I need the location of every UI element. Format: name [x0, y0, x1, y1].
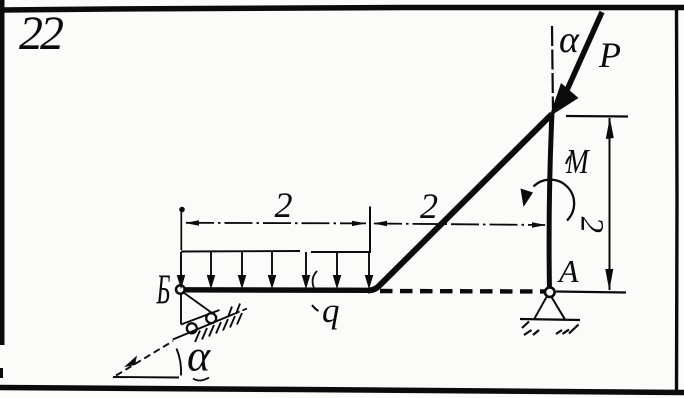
- dimension line 1 (left span): [186, 222, 366, 225]
- diagonal member bend to apex: [368, 114, 552, 291]
- dim1 left arrow: [185, 220, 199, 225]
- pin support A ground line: [520, 319, 580, 320]
- middle dimension tick: [369, 207, 371, 254]
- q tick before: [312, 305, 319, 311]
- pin support A hatching: [522, 322, 579, 336]
- q curl above beam: [313, 271, 317, 288]
- frame right border: [675, 8, 679, 392]
- angle alpha arc: [177, 349, 182, 376]
- svg-text:M: M: [565, 142, 590, 181]
- svg-text:2: 2: [275, 185, 293, 225]
- vertical reference line above apex: [552, 26, 553, 112]
- beam B to bend: [180, 287, 370, 293]
- dimension tick above B: [180, 212, 182, 250]
- vertical column apex to A: [549, 113, 552, 292]
- dim2 left arrow: [373, 221, 387, 226]
- svg-text:α: α: [187, 332, 211, 381]
- arrow on dashed line: [124, 356, 137, 368]
- incline hatching: [195, 304, 242, 343]
- incline surface dashed extension: [235, 309, 247, 314]
- angle alpha dashed reference line: [116, 341, 173, 376]
- right dimension bottom tick: [556, 292, 626, 293]
- svg-text:α: α: [559, 19, 580, 61]
- incline surface line: [173, 314, 235, 340]
- force P line: [567, 12, 602, 90]
- frame left border lower tick: [0, 368, 3, 378]
- frame left border: [0, 0, 5, 345]
- distributed load top line: [181, 251, 369, 252]
- moment M arc: [534, 180, 575, 221]
- roller support B: link vertical: [180, 294, 182, 325]
- svg-text:22: 22: [19, 7, 63, 60]
- angle alpha horizontal line: [113, 376, 179, 379]
- svg-text:A: A: [557, 253, 579, 289]
- roller 2: [206, 313, 216, 323]
- frame bottom border: [0, 388, 684, 393]
- right dimension top tick: [566, 115, 628, 118]
- dashed line beam level to A: [380, 289, 545, 294]
- pin support A triangle right: [552, 297, 566, 320]
- right dimension bottom arrow: [605, 269, 613, 291]
- svg-text:2: 2: [574, 217, 610, 234]
- M tick mark: [566, 156, 571, 164]
- pin circle A: [545, 287, 555, 297]
- dimension dot above B: [179, 207, 185, 213]
- svg-text:q: q: [322, 291, 340, 330]
- force P arrowhead: [550, 83, 579, 117]
- right dimension vertical line: [609, 118, 611, 290]
- pin support A triangle left: [535, 297, 547, 319]
- dim1 right arrow: [352, 221, 366, 226]
- roller support B: plate over rollers: [181, 310, 220, 325]
- distributed load arrows: [178, 252, 372, 286]
- svg-text:2: 2: [420, 186, 438, 226]
- dim2 right arrow: [532, 222, 546, 227]
- roller support B: link diagonal: [184, 293, 213, 314]
- pin circle B: [176, 285, 185, 294]
- svg-text:Б: Б: [156, 268, 171, 314]
- right dimension top arrow: [606, 118, 614, 140]
- dimension line 2 (right span): [374, 224, 545, 226]
- roller 1: [187, 323, 197, 333]
- alpha underline curl: [193, 378, 209, 381]
- moment M arrowhead: [521, 189, 534, 208]
- frame top border: [2, 8, 684, 11]
- svg-text:P: P: [598, 35, 621, 75]
- tick from B circle up: [180, 255, 182, 284]
